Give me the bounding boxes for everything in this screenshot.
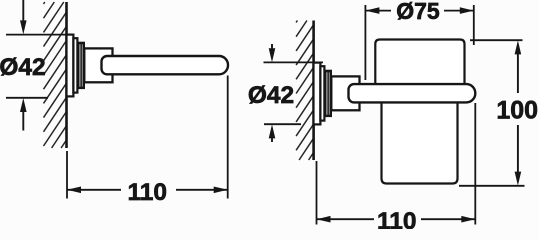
left view wall hatching xyxy=(44,2,67,148)
right view wall face line xyxy=(312,21,315,161)
left view Ø42 dimension line and arrows xyxy=(22,0,24,23)
right view Ø42 dimension extension lines xyxy=(264,61,324,63)
left view wall face line xyxy=(65,2,68,148)
svg-text:Ø42: Ø42 xyxy=(248,82,294,109)
right view 110 dimension line and arrows xyxy=(317,218,375,220)
glass tumbler upper body xyxy=(375,40,464,94)
left view flange step ring xyxy=(73,38,77,92)
right view 110 dimension extension lines xyxy=(316,161,318,225)
100 dimension line and arrows xyxy=(515,40,522,54)
left view 110 dimension extension lines xyxy=(66,151,68,199)
left view holder bar (side view of ring) xyxy=(102,56,229,74)
Ø75 dimension line and arrows xyxy=(365,10,391,12)
right view holder block xyxy=(331,76,359,110)
svg-text:Ø75: Ø75 xyxy=(396,0,440,24)
right view wall hatching xyxy=(296,21,314,161)
left view flange dark collar xyxy=(77,42,84,88)
right view flange dark collar xyxy=(324,70,331,116)
glass tumbler lower body xyxy=(382,93,458,184)
100 dimension extension lines xyxy=(470,39,523,41)
left view 110 dimension line and arrows xyxy=(67,189,121,191)
left view Ø42 dimension extension lines xyxy=(6,34,74,36)
right view Ø42 dimension line and arrows xyxy=(271,44,273,51)
svg-text:110: 110 xyxy=(377,208,417,229)
Ø75 dimension extension lines xyxy=(364,5,366,80)
svg-text:Ø42: Ø42 xyxy=(0,54,46,81)
svg-text:110: 110 xyxy=(128,179,168,206)
right view flange step ring xyxy=(320,66,324,120)
svg-text:100: 100 xyxy=(496,97,538,125)
left view flange base plate xyxy=(67,35,74,97)
right view flange base plate xyxy=(314,63,321,125)
right view holder bar (side view of ring) xyxy=(349,84,476,102)
left view holder block xyxy=(84,48,112,82)
